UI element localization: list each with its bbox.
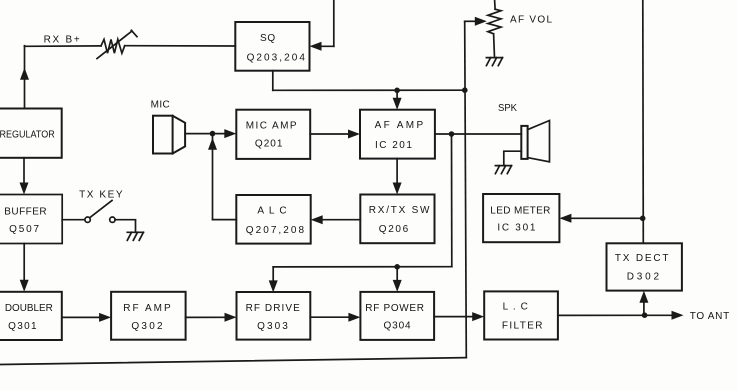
block RF POWER Q304 — [360, 292, 434, 340]
potentiometer AF VOL bottom lead — [493, 34, 496, 58]
wire AF AMP output down (x451) — [451, 134, 453, 267]
wire RX/TX SW to ALC — [315, 219, 360, 221]
svg-text:DOUBLER: DOUBLER — [5, 303, 53, 314]
block SQ Q203,204 — [235, 22, 309, 71]
svg-text:MIC AMP: MIC AMP — [246, 120, 297, 131]
svg-text:RX B+: RX B+ — [44, 35, 80, 46]
wire REGULATOR to BUFFER — [23, 158, 25, 190]
junction dot at AF VOL net — [462, 87, 468, 93]
arrow into BUFFER top — [20, 183, 29, 195]
wire bottom bus to left edge — [0, 358, 466, 365]
wire DOUBLER to RF AMP — [62, 316, 107, 318]
svg-text:Q304: Q304 — [384, 321, 412, 332]
svg-text:BUFFER: BUFFER — [4, 207, 46, 218]
svg-text:SQ: SQ — [260, 33, 275, 44]
arrow into MIC AMP left — [224, 129, 236, 138]
wire ALC up to MIC junction — [212, 134, 214, 220]
wire antenna junction up to TX DECT bottom — [643, 295, 645, 315]
arrow into TX DECT bottom — [639, 291, 648, 303]
wire switch to ground — [115, 220, 135, 233]
wire L.C FILTER to antenna — [558, 314, 672, 316]
block RF AMP Q302 — [111, 292, 186, 340]
svg-text:IC 301: IC 301 — [497, 223, 535, 234]
wire MIC AMP to AF AMP — [310, 133, 355, 135]
block DOUBLER Q301 — [0, 292, 62, 340]
junction dot at AF AMP feed — [394, 88, 400, 94]
switch TX KEY throw circle — [110, 217, 115, 222]
speaker SPK — [521, 126, 527, 159]
svg-text:RF DRIVE: RF DRIVE — [246, 303, 301, 314]
resistor RX B+ variable (zigzag) — [101, 39, 125, 53]
svg-text:MIC: MIC — [151, 100, 170, 111]
svg-text:L . C: L . C — [503, 302, 528, 313]
block LED METER IC 301 — [483, 194, 559, 242]
switch TX KEY wire from BUFFER — [62, 219, 85, 221]
wire into SQ from top right — [333, 0, 335, 46]
block TX DECT D302 — [607, 243, 682, 290]
arrow into LED METER right — [559, 214, 571, 223]
wire RX B+ horizontal left segment — [25, 45, 102, 47]
block REGULATOR — [0, 109, 62, 158]
wire MIC to MIC AMP — [185, 133, 231, 135]
arrow up on RX B+ vertical — [20, 68, 29, 80]
arrow into RF AMP left — [99, 313, 111, 322]
wire vertical x=643 from top edge to TX DECT — [642, 0, 645, 243]
svg-text:Q301: Q301 — [8, 321, 37, 332]
svg-text:SPK: SPK — [498, 103, 517, 114]
svg-text:LED METER: LED METER — [490, 205, 550, 216]
arrow into ALC right — [311, 215, 323, 224]
wiper wire AF VOL — [465, 20, 476, 22]
arrow into SQ right edge — [310, 42, 322, 51]
arrow into AF AMP top — [393, 98, 402, 110]
block RX/TX SW Q206 — [360, 195, 434, 244]
svg-text:RF POWER: RF POWER — [365, 303, 424, 314]
ground AF VOL — [486, 57, 502, 59]
potentiometer AF VOL top lead — [494, 0, 497, 9]
ground SPK — [495, 165, 511, 167]
wire RX B+ vertical from REGULATOR top — [24, 46, 26, 109]
arrow into DOUBLER top — [20, 280, 29, 292]
svg-text:IC 201: IC 201 — [375, 140, 412, 151]
block L.C FILTER — [484, 291, 558, 339]
wire horizontal y=267 feed to RF stages — [273, 266, 452, 268]
svg-text:TO ANT: TO ANT — [690, 311, 730, 322]
junction node MIC/ALC — [210, 131, 216, 137]
wire BUFFER to DOUBLER — [23, 244, 25, 288]
svg-text:REGULATOR: REGULATOR — [0, 130, 55, 141]
wire SPK to ground — [504, 151, 522, 165]
ground TX KEY — [127, 231, 143, 233]
svg-text:RF AMP: RF AMP — [123, 303, 171, 314]
wire RF DRIVE to RF POWER — [310, 316, 356, 318]
arrow wiper into AF VOL — [475, 17, 487, 26]
switch TX KEY pole circle — [85, 217, 90, 222]
arrow into RX/TX SW top — [393, 183, 402, 195]
arrow into L.C FILTER left — [472, 312, 484, 321]
wire AF AMP down to RX/TX SW — [396, 159, 398, 190]
wire down into AF AMP top — [396, 90, 398, 105]
wire to LED METER — [564, 217, 643, 219]
svg-text:FILTER: FILTER — [502, 321, 543, 332]
block AF AMP IC 201 — [360, 110, 435, 159]
arrow into AF AMP left — [348, 130, 360, 139]
svg-text:Q206: Q206 — [379, 224, 409, 235]
svg-text:Q201: Q201 — [255, 138, 283, 149]
wire SQ bottom down — [272, 71, 274, 91]
wire from variable resistor to SQ left — [125, 45, 236, 47]
arrow TO ANT — [672, 311, 684, 320]
junction dot LED METER feed — [640, 216, 646, 222]
arrow into RF DRIVE top — [269, 280, 278, 292]
wire horizontal y=90 to AF VOL net — [273, 89, 465, 91]
arrow up on ALC feedback wire — [208, 138, 217, 150]
arrow into RF DRIVE left — [225, 313, 237, 322]
wire down into RF POWER top — [396, 267, 398, 288]
variable resistor diagonal arrow with end bar — [97, 31, 132, 59]
arrow into RF POWER top — [393, 280, 402, 292]
svg-text:A L C: A L C — [257, 206, 286, 217]
wire RF AMP to RF DRIVE — [186, 316, 232, 318]
switch TX KEY lever — [90, 201, 112, 218]
block ALC Q207,208 — [236, 195, 310, 244]
svg-text:RX/TX SW: RX/TX SW — [369, 205, 430, 216]
arrow into RF POWER left — [348, 313, 360, 322]
junction dot RF POWER feed — [394, 264, 400, 270]
svg-text:AF VOL: AF VOL — [510, 15, 552, 26]
wire AF VOL wiper bus down to bottom — [465, 21, 467, 357]
svg-text:TX DECT: TX DECT — [615, 253, 669, 264]
block BUFFER Q507 — [0, 195, 62, 244]
potentiometer AF VOL zigzag — [488, 9, 501, 34]
junction dot antenna/TX DECT — [642, 312, 648, 318]
wire into ALC left — [213, 219, 237, 221]
junction dot AF AMP output — [449, 131, 455, 137]
block MIC AMP Q201 — [236, 110, 310, 159]
wire down into RF DRIVE top — [272, 267, 274, 288]
wire AF AMP to SPK — [435, 133, 521, 135]
microphone MIC — [153, 116, 173, 154]
block RF DRIVE Q303 — [237, 292, 311, 340]
wire RF POWER to L.C FILTER — [434, 316, 480, 318]
